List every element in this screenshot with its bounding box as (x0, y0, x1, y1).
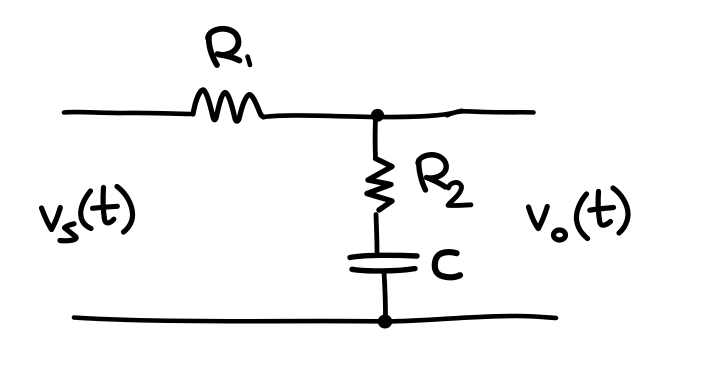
wire top right segment (264, 111, 534, 117)
resistor R1 (193, 90, 264, 121)
capacitor C bottom plate (352, 269, 415, 271)
label R2 (418, 155, 471, 206)
label vo(t) (529, 188, 629, 240)
label vs(t) (42, 187, 133, 241)
label R1 (208, 29, 250, 65)
wire R2 to capacitor (376, 215, 377, 253)
resistor R2 (367, 159, 392, 211)
wire bottom (74, 316, 556, 322)
wire overlap stroke at kink (447, 111, 462, 116)
label C (435, 252, 460, 277)
wire capacitor to node B (384, 272, 386, 317)
node B (bottom junction) (378, 315, 392, 329)
wire node A to R2 (373, 119, 378, 158)
capacitor C top plate (350, 255, 417, 257)
wire top left segment (64, 112, 193, 114)
node A (top junction) (371, 109, 384, 122)
